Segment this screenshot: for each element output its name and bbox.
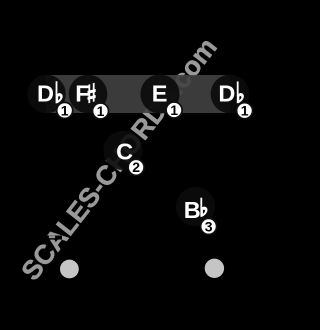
fret inlay dot right [205,259,224,278]
svg-text:1: 1 [97,103,105,119]
flat sign of Bb [200,198,207,217]
flat sign of Db left [56,81,63,103]
finger circle 1 on Db right [237,103,253,119]
finger circle 1 on Db left [57,102,73,118]
svg-text:D: D [37,81,54,107]
finger circle 2 on C [128,159,144,175]
svg-text:E: E [152,81,168,107]
finger circle 3 on Bb [201,218,217,234]
finger circle 1 on F# [93,103,109,119]
svg-text:D: D [218,81,235,107]
fret position bar [46,75,230,113]
note circle Db string6 [27,75,66,114]
fret inlay dot left [60,260,79,279]
note circle E [140,74,179,113]
fret line cut over watermark A [40,236,62,240]
note circle F# [69,75,108,114]
svg-text:1: 1 [61,102,69,118]
finger circle 1 on E [166,102,182,118]
crossbar remnant of watermark A [49,236,55,239]
flat sign of Db right [237,82,244,104]
svg-text:B: B [184,197,201,223]
note circle C [103,131,142,170]
watermark SCALES-CHORDS.com [15,32,222,286]
sharp sign of F# [88,83,96,104]
note circle Db string1 [211,75,250,114]
svg-text:3: 3 [205,218,213,234]
svg-text:1: 1 [170,102,178,118]
note circle Bb [176,187,215,226]
svg-text:2: 2 [132,159,140,175]
svg-text:1: 1 [241,103,249,119]
